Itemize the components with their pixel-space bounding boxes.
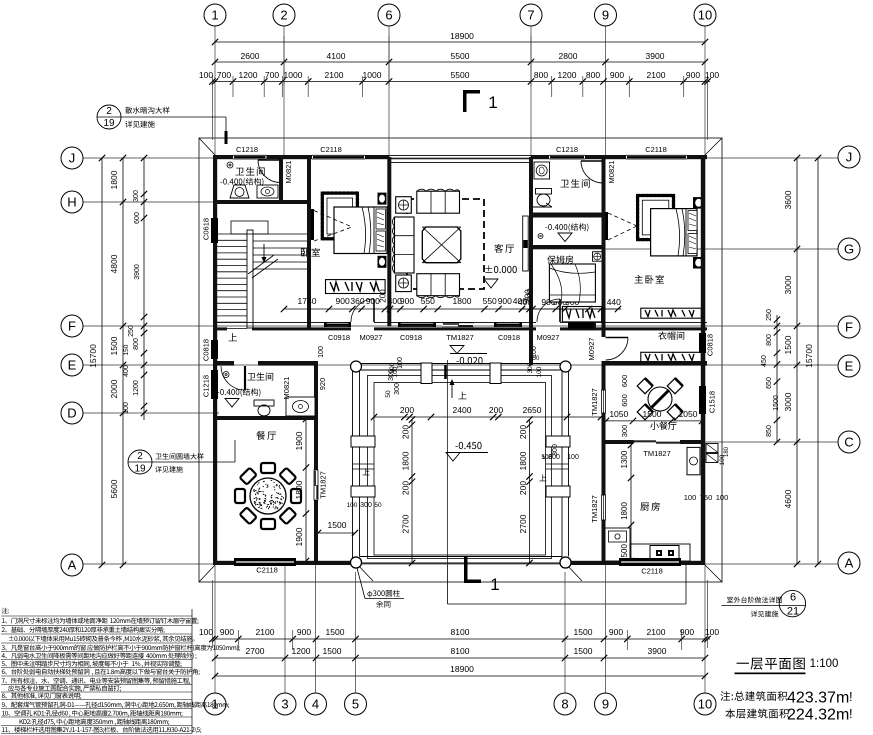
nanny room dresser hatched bbox=[562, 307, 601, 322]
svg-text:C2118: C2118 bbox=[320, 145, 342, 154]
svg-text:!: ! bbox=[849, 689, 853, 704]
staircase treads left flight bbox=[217, 234, 247, 329]
svg-text:3900: 3900 bbox=[646, 51, 665, 61]
window C2118 dining south bbox=[234, 558, 296, 566]
window C0918 living south bbox=[494, 321, 522, 323]
svg-text:4600: 4600 bbox=[783, 489, 793, 508]
room label 卫生间 northwest bbox=[235, 168, 244, 176]
svg-text:900: 900 bbox=[680, 627, 694, 637]
svg-text:1500: 1500 bbox=[783, 335, 793, 354]
svg-text:100: 100 bbox=[536, 366, 543, 377]
svg-text:800: 800 bbox=[766, 334, 773, 346]
svg-text:9: 9 bbox=[602, 697, 609, 712]
kitchen stove 2 burners bbox=[650, 546, 679, 560]
svg-text:TM1827: TM1827 bbox=[319, 471, 328, 499]
entry up arrow bbox=[451, 382, 453, 398]
staircase center stringer bbox=[247, 230, 253, 328]
svg-text:C0918: C0918 bbox=[328, 333, 350, 342]
bottom dimension line total 18900 bbox=[215, 675, 705, 677]
level mark -0.400 bathroom2 lobby bbox=[545, 226, 547, 229]
svg-text:400: 400 bbox=[123, 365, 130, 377]
svg-text:E: E bbox=[68, 358, 77, 373]
svg-text:360: 360 bbox=[350, 296, 364, 306]
eave overhang outline bbox=[199, 138, 722, 582]
bedroom door leaf and swing dashes bbox=[310, 209, 314, 240]
svg-text:900: 900 bbox=[336, 296, 350, 306]
svg-text:900: 900 bbox=[609, 627, 623, 637]
bathroom2 shower partition bbox=[533, 206, 552, 208]
section mark 1 top bbox=[463, 90, 480, 94]
svg-text:3000: 3000 bbox=[783, 392, 793, 411]
bathroom2 washbasin bbox=[534, 162, 550, 179]
outer tick extension lines to eave bbox=[211, 76, 213, 140]
living room corner table with lamp upper bbox=[396, 197, 412, 214]
left dimension line detail column bbox=[143, 158, 145, 420]
room label 主卧室 bbox=[635, 275, 643, 283]
svg-text:C: C bbox=[844, 435, 853, 450]
svg-text:200: 200 bbox=[518, 425, 528, 439]
svg-text:600: 600 bbox=[134, 212, 141, 224]
bottom dimension line detail row bbox=[212, 638, 710, 640]
svg-text:1500: 1500 bbox=[323, 646, 342, 656]
room label 餐厅 bbox=[256, 431, 265, 440]
master dresser at F wall bbox=[641, 308, 702, 318]
svg-text:M0821: M0821 bbox=[282, 377, 291, 400]
svg-text:100: 100 bbox=[123, 402, 130, 414]
door M0821 bathroom3 bbox=[244, 366, 246, 390]
svg-text:E: E bbox=[845, 359, 854, 374]
svg-text:C0918: C0918 bbox=[498, 333, 520, 342]
column pedestal east lower bbox=[546, 486, 570, 497]
svg-text:2: 2 bbox=[280, 8, 287, 23]
grid line D horizontal bbox=[83, 412, 219, 414]
callout 2/19 bathroom round wall bbox=[128, 450, 152, 474]
svg-text:1500: 1500 bbox=[109, 336, 119, 355]
svg-text:1000: 1000 bbox=[284, 70, 303, 80]
svg-text:6: 6 bbox=[790, 592, 796, 604]
svg-text:550: 550 bbox=[483, 296, 497, 306]
svg-text:C2118: C2118 bbox=[645, 145, 667, 154]
bathroom1 floor drain bbox=[227, 162, 233, 168]
bedroom bed bbox=[334, 207, 387, 254]
svg-text:4100: 4100 bbox=[327, 51, 346, 61]
note floor area line2 bbox=[725, 709, 735, 719]
breakfast dim row 1050 1500 1050 bbox=[606, 420, 702, 422]
master nightstand upper bbox=[693, 197, 705, 209]
svg-text:2400: 2400 bbox=[453, 405, 472, 415]
svg-text:150: 150 bbox=[123, 344, 130, 355]
svg-text:F: F bbox=[68, 319, 76, 334]
svg-text:1: 1 bbox=[488, 93, 497, 112]
level mark -0.450 courtyard bbox=[455, 445, 457, 448]
courtyard dim line vertical east bbox=[529, 419, 531, 563]
svg-text:50: 50 bbox=[374, 502, 382, 509]
grid line H horizontal bbox=[83, 201, 311, 203]
living room sofa north 3-seat bbox=[417, 191, 460, 213]
svg-text:1200: 1200 bbox=[558, 70, 577, 80]
svg-text:15700: 15700 bbox=[804, 344, 814, 368]
svg-text:TM1827: TM1827 bbox=[446, 333, 474, 342]
bathroom3 toilet bbox=[254, 400, 274, 406]
svg-text:3000: 3000 bbox=[783, 275, 793, 294]
svg-text:200: 200 bbox=[401, 425, 411, 439]
room label 厨房 bbox=[640, 502, 649, 510]
window C0918 bedroom south 2 bbox=[398, 321, 436, 323]
svg-text:224.32m: 224.32m bbox=[787, 707, 849, 724]
window C1218 west wall bbox=[211, 370, 218, 399]
column pedestal courtyard entry right bbox=[490, 363, 501, 384]
east up label 上 bbox=[539, 474, 546, 481]
svg-text:550: 550 bbox=[421, 296, 435, 306]
general notes rules bbox=[1, 616, 192, 734]
eave corner diagonals bbox=[199, 138, 215, 155]
svg-text:100: 100 bbox=[684, 493, 697, 502]
kitchen fridge bbox=[687, 447, 700, 474]
svg-text:C2118: C2118 bbox=[256, 566, 278, 575]
svg-text:300: 300 bbox=[133, 190, 140, 202]
svg-text:C0818: C0818 bbox=[706, 334, 715, 356]
axis bubbles right J G F E C A bbox=[838, 146, 860, 168]
svg-text:100: 100 bbox=[542, 454, 553, 461]
bedroom dresser bbox=[326, 280, 386, 294]
wall H bathroom1 south bbox=[215, 200, 311, 204]
wall axis7 F to E bbox=[529, 322, 533, 365]
column pedestal west upper bbox=[351, 436, 375, 447]
svg-text:2: 2 bbox=[106, 106, 112, 117]
wall axis7 living-east rooms bbox=[529, 157, 533, 327]
svg-text:50: 50 bbox=[533, 356, 540, 362]
right dimension line total 15700 bbox=[817, 158, 819, 564]
kitchen dim column 1300 1800 1500 bbox=[630, 445, 632, 561]
staircase treads right flight bbox=[253, 234, 307, 269]
svg-text:100: 100 bbox=[716, 493, 729, 502]
bottom dim extension stubs bbox=[238, 630, 681, 650]
interior dim row at F 1740 900 360 900 etc bbox=[284, 308, 621, 310]
svg-text:1500: 1500 bbox=[328, 520, 347, 530]
master door leaf and swing dashes bbox=[605, 212, 609, 240]
svg-text:A: A bbox=[68, 558, 77, 573]
top dim extension stubs bbox=[233, 76, 684, 97]
round column phi300 southwest over wall bbox=[351, 557, 362, 568]
living room sofa south 3-seat bbox=[417, 274, 460, 296]
grid line F horizontal bbox=[83, 325, 838, 327]
breakfast round table bbox=[648, 387, 672, 411]
round column phi300 northeast bbox=[560, 361, 571, 372]
room label 保姆房 bbox=[547, 255, 556, 263]
round column phi300 southwest bbox=[351, 557, 362, 568]
svg-text:920: 920 bbox=[318, 378, 327, 391]
svg-text:250: 250 bbox=[128, 325, 135, 337]
kitchen counter south bbox=[630, 544, 690, 561]
grid line axis 6 vertical bbox=[388, 26, 390, 157]
column pedestal west lower bbox=[351, 486, 375, 497]
breakfast chairs x4 bbox=[637, 378, 653, 394]
svg-text:100: 100 bbox=[392, 366, 399, 377]
svg-text:1000: 1000 bbox=[363, 70, 382, 80]
grid line axis 10 vertical bbox=[704, 26, 706, 693]
round column phi300 southeast bbox=[560, 557, 571, 568]
dining chairs x8 bbox=[291, 489, 301, 503]
bedroom nightstand upper bbox=[378, 193, 387, 205]
living room sofa west 3-seat bbox=[395, 217, 415, 273]
svg-text:900: 900 bbox=[400, 296, 414, 306]
master wardrobe hatched bbox=[638, 196, 674, 240]
svg-text:1500: 1500 bbox=[574, 627, 593, 637]
grid line axis 1 vertical bbox=[214, 26, 216, 693]
grid line J horizontal bbox=[83, 157, 838, 159]
svg-text:1500: 1500 bbox=[326, 627, 345, 637]
top dimension line total 18900 bbox=[215, 41, 705, 43]
svg-text:900: 900 bbox=[686, 70, 700, 80]
svg-text:21: 21 bbox=[787, 606, 799, 618]
svg-text:1800: 1800 bbox=[453, 296, 472, 306]
svg-text:M0821: M0821 bbox=[607, 161, 616, 184]
nanny room bed bbox=[549, 264, 595, 302]
right dimension line detail column bbox=[776, 315, 778, 442]
svg-text:C1218: C1218 bbox=[202, 375, 211, 397]
door M0927 cloakroom bbox=[606, 337, 629, 339]
svg-text:700: 700 bbox=[265, 70, 279, 80]
window C2118 bedroom north bbox=[312, 155, 365, 159]
courtyard sunken floor step edge inner bbox=[374, 383, 546, 556]
svg-text:2100: 2100 bbox=[647, 627, 666, 637]
svg-text:450: 450 bbox=[761, 355, 768, 367]
door M0821 bathroom2 bbox=[581, 160, 603, 162]
svg-text:423.37m: 423.37m bbox=[787, 690, 849, 707]
round column phi300 southeast over wall bbox=[560, 557, 571, 568]
bedroom pillows bbox=[376, 209, 386, 229]
svg-text:1050: 1050 bbox=[609, 409, 628, 419]
window C2118 master north bbox=[626, 155, 687, 159]
wall E bathroom3 north segments bbox=[213, 361, 234, 366]
room label 卫生间 southwest bbox=[247, 373, 255, 380]
svg-text:100: 100 bbox=[705, 627, 719, 637]
svg-text:1050: 1050 bbox=[679, 409, 698, 419]
left dimension line total 15700 bbox=[101, 158, 103, 565]
bathroom2 toilet bbox=[536, 189, 552, 195]
axis bubbles left J H F E D A bbox=[61, 147, 83, 169]
window C1218 bathroom2 north bbox=[549, 155, 585, 159]
entry step mark north bbox=[444, 365, 447, 379]
svg-text:2650: 2650 bbox=[523, 405, 542, 415]
svg-text:200: 200 bbox=[379, 289, 388, 303]
svg-text:800: 800 bbox=[133, 338, 140, 350]
svg-text:300: 300 bbox=[394, 383, 401, 395]
east walkway steps bbox=[546, 463, 569, 465]
svg-text:1800: 1800 bbox=[401, 451, 411, 470]
svg-text:200: 200 bbox=[401, 481, 411, 495]
living room TV cabinet bbox=[523, 216, 529, 271]
staircase landing bbox=[231, 221, 268, 234]
wall bathroom1 east bbox=[279, 158, 283, 202]
svg-text:M0927: M0927 bbox=[537, 333, 560, 342]
callout phi300 column note bbox=[367, 591, 372, 598]
svg-text:15700: 15700 bbox=[88, 344, 98, 368]
svg-text:200: 200 bbox=[518, 481, 528, 495]
axis bubbles bottom 1 3 4 5 8 9 10 bbox=[204, 693, 226, 715]
svg-text:J: J bbox=[69, 151, 76, 166]
grid line axis 2 vertical bbox=[283, 26, 285, 155]
svg-text:200: 200 bbox=[524, 289, 533, 303]
wall axis6 bedroom-living bbox=[387, 157, 391, 327]
svg-text:!: ! bbox=[849, 706, 853, 721]
window C1218 bathroom1 north bbox=[233, 155, 267, 159]
window C0818 east wall bbox=[699, 333, 706, 353]
svg-text:2700: 2700 bbox=[518, 514, 528, 533]
bathroom1 washbasin bbox=[230, 185, 249, 198]
grid line axis 4 vertical bbox=[315, 565, 317, 693]
svg-text:700: 700 bbox=[217, 70, 231, 80]
living room coffee table bbox=[422, 227, 461, 263]
svg-text:G: G bbox=[844, 242, 854, 257]
staircase up label 上 bbox=[228, 333, 237, 341]
callout 2/19 eave drain top-left bbox=[97, 105, 121, 129]
cloakroom closet bbox=[641, 352, 702, 362]
svg-text:200: 200 bbox=[400, 405, 414, 415]
svg-text:D: D bbox=[67, 406, 76, 421]
svg-text:1800: 1800 bbox=[518, 451, 528, 470]
room label 衣帽间 bbox=[658, 331, 666, 339]
wall F bottom heavy line segments with openings bbox=[215, 327, 227, 330]
bedroom nightstand lower bbox=[378, 256, 387, 268]
column pedestal courtyard entry left bbox=[421, 363, 432, 384]
door TM1827 corridor east bbox=[314, 470, 318, 500]
svg-text:850: 850 bbox=[766, 425, 773, 437]
svg-text:C0818: C0818 bbox=[202, 339, 211, 361]
svg-text:300: 300 bbox=[620, 425, 629, 438]
window C0818 west wall bbox=[211, 340, 218, 359]
svg-text:M0927: M0927 bbox=[587, 338, 596, 361]
window C0918 bedroom south bbox=[324, 321, 351, 323]
svg-text:5500: 5500 bbox=[451, 51, 470, 61]
svg-text:3: 3 bbox=[281, 697, 288, 712]
courtyard inner eave diagonal southwest bbox=[357, 564, 373, 581]
wall north living room thin glazed section bbox=[389, 154, 531, 156]
svg-text:TM1827: TM1827 bbox=[590, 495, 599, 523]
svg-text:6: 6 bbox=[385, 8, 392, 23]
svg-text:1:100: 1:100 bbox=[810, 658, 839, 670]
general notes table bbox=[2, 608, 8, 614]
grid line axis 7 vertical bbox=[530, 26, 532, 157]
svg-text:18900: 18900 bbox=[450, 664, 474, 674]
nanny room lamp symbol bbox=[593, 252, 603, 262]
bottom dimension line axes row bbox=[215, 657, 705, 659]
svg-text:2700: 2700 bbox=[401, 514, 411, 533]
svg-text:2700: 2700 bbox=[246, 646, 265, 656]
outdoor terrace outline south bbox=[447, 565, 449, 604]
column pedestal east upper bbox=[546, 436, 570, 447]
svg-text:19: 19 bbox=[134, 464, 146, 475]
svg-text:2800: 2800 bbox=[559, 51, 578, 61]
wall corridor-dining east segments bbox=[314, 361, 318, 470]
kitchen sink bbox=[609, 531, 627, 542]
svg-text:1900: 1900 bbox=[294, 431, 304, 450]
svg-text:7: 7 bbox=[527, 8, 534, 23]
svg-text:1900: 1900 bbox=[294, 527, 304, 546]
svg-text:4800: 4800 bbox=[109, 254, 119, 273]
wall stair hall east bbox=[307, 155, 311, 328]
grid line axis 9 vertical bbox=[605, 26, 607, 155]
grid line A horizontal bbox=[83, 563, 838, 565]
svg-text:1500: 1500 bbox=[574, 646, 593, 656]
west up label 上 bbox=[362, 468, 369, 475]
bedroom wardrobe hatched bbox=[322, 193, 357, 239]
svg-text:C1218: C1218 bbox=[236, 145, 258, 154]
svg-text:C1218: C1218 bbox=[556, 145, 578, 154]
wall axis9 upper bbox=[602, 155, 606, 337]
svg-text:50: 50 bbox=[385, 390, 392, 398]
door M0821 bathroom1 bbox=[258, 159, 281, 161]
svg-text:3900: 3900 bbox=[648, 646, 667, 656]
svg-text:10: 10 bbox=[698, 8, 712, 23]
right dimension line axes column bbox=[796, 158, 798, 564]
drawing title 一层平面图 1:100 bbox=[737, 663, 749, 664]
wall exterior north bbox=[213, 155, 389, 159]
svg-text:1800: 1800 bbox=[620, 502, 629, 520]
staircase direction arrow bbox=[263, 244, 265, 260]
door TM1827 living south sliding bbox=[442, 323, 474, 327]
svg-text:19: 19 bbox=[103, 118, 115, 129]
svg-text:9: 9 bbox=[602, 8, 609, 23]
svg-text:600: 600 bbox=[620, 394, 629, 407]
svg-text:2600: 2600 bbox=[241, 51, 260, 61]
door M0927 living to hall bbox=[373, 299, 375, 322]
master interior dim row 400 900 360 900 440 bbox=[522, 308, 621, 310]
grid line axis 3 vertical bbox=[284, 565, 286, 693]
window black band nanny south bbox=[568, 323, 594, 329]
door TM1827 kitchen west upper bbox=[602, 390, 606, 413]
svg-text:100: 100 bbox=[705, 70, 719, 80]
entry up label 上 bbox=[458, 392, 466, 400]
svg-text:1300: 1300 bbox=[620, 450, 629, 468]
svg-text:250: 250 bbox=[766, 309, 773, 321]
svg-text:100: 100 bbox=[318, 346, 325, 358]
svg-text:5500: 5500 bbox=[451, 70, 470, 80]
room label 卧室 bbox=[301, 248, 309, 257]
top dimension line detail row bbox=[212, 81, 710, 83]
staircase break line bbox=[248, 255, 274, 274]
svg-text:3600: 3600 bbox=[783, 190, 793, 209]
svg-text:8: 8 bbox=[561, 697, 568, 712]
svg-text:1500: 1500 bbox=[643, 409, 662, 419]
svg-text:M0927: M0927 bbox=[360, 333, 383, 342]
wall G nanny lobby south bbox=[531, 245, 606, 249]
svg-text:C0918: C0918 bbox=[400, 333, 422, 342]
master nightstand lower bbox=[693, 257, 705, 269]
svg-text:650: 650 bbox=[766, 377, 773, 389]
room label 小餐厅 bbox=[650, 422, 658, 430]
svg-text:C1518: C1518 bbox=[708, 391, 717, 413]
door TM1827 kitchen-breakfast sliding bbox=[634, 440, 657, 442]
svg-text:600: 600 bbox=[620, 375, 629, 388]
window C0618 west wall bbox=[211, 218, 218, 243]
svg-text:TM1827: TM1827 bbox=[643, 449, 671, 458]
svg-text:1500: 1500 bbox=[773, 395, 780, 411]
wall bathroom2 south black band bbox=[533, 213, 603, 218]
svg-text:C0618: C0618 bbox=[202, 218, 211, 240]
svg-text:1740: 1740 bbox=[298, 296, 317, 306]
dining round table with granite texture bbox=[250, 478, 286, 514]
living room carpet dashed border bbox=[407, 199, 484, 289]
courtyard dim line horizontal 200 2400 200 2650 bbox=[374, 416, 601, 418]
wall exterior south west segment bbox=[213, 561, 359, 565]
svg-text:440: 440 bbox=[607, 297, 621, 307]
svg-text:100: 100 bbox=[567, 454, 579, 461]
svg-text:200: 200 bbox=[489, 405, 503, 415]
top dimension line axes row bbox=[215, 61, 705, 63]
level mark plus-minus 0.000 living room bbox=[485, 265, 492, 272]
svg-text:900: 900 bbox=[498, 296, 512, 306]
